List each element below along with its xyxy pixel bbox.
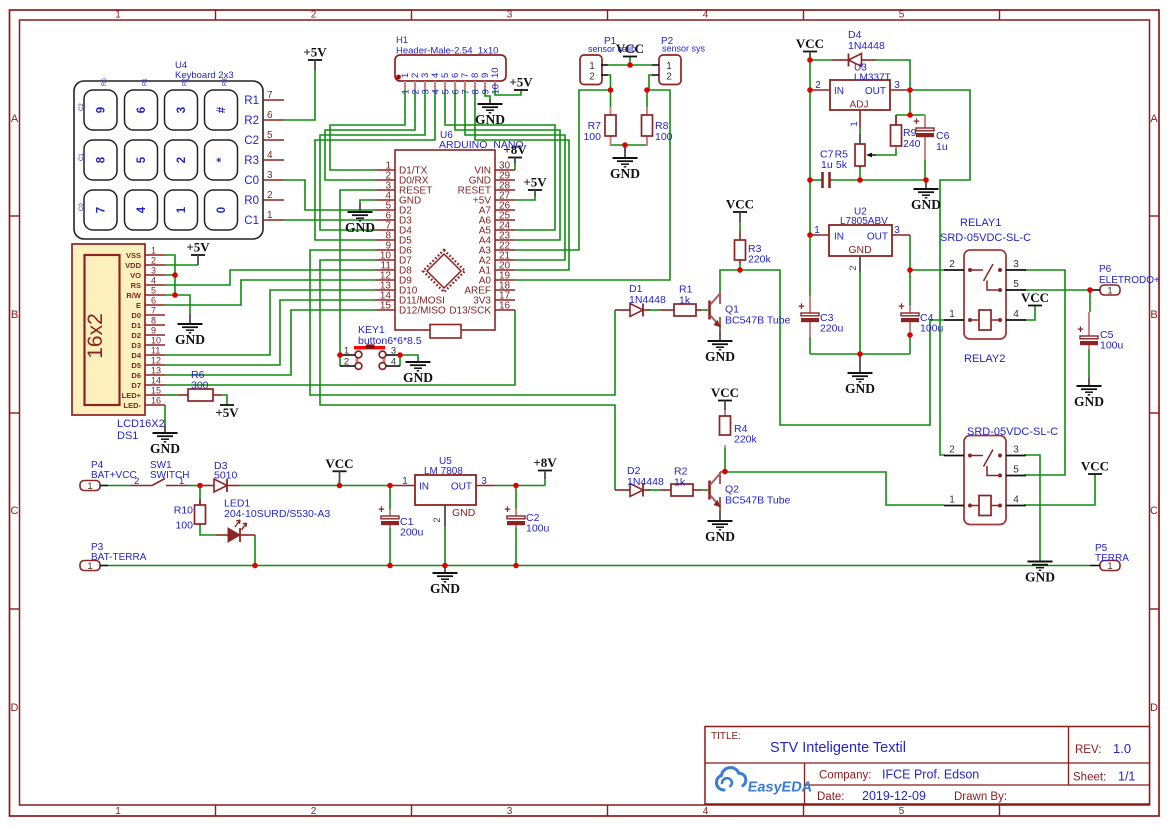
svg-text:GND: GND bbox=[705, 349, 735, 364]
wire LCD E to nano D9 bbox=[165, 280, 375, 305]
svg-text:REV:: REV: bbox=[1075, 744, 1101, 756]
diode D3 bbox=[200, 479, 239, 492]
svg-text:2: 2 bbox=[949, 259, 955, 270]
wire C3 bottom lead bbox=[809, 337, 811, 354]
svg-text:1: 1 bbox=[849, 121, 860, 126]
svg-text:RELAY2: RELAY2 bbox=[964, 353, 1005, 365]
svg-text:R10: R10 bbox=[174, 505, 193, 517]
svg-text:B: B bbox=[11, 309, 18, 321]
svg-text:OUT: OUT bbox=[865, 86, 886, 97]
svg-text:C: C bbox=[1150, 505, 1158, 517]
power VCC RELAY2 pin4 bbox=[1081, 459, 1109, 475]
svg-text:RELAY1: RELAY1 bbox=[960, 217, 1001, 229]
power +5V R6 (down) bbox=[215, 405, 239, 420]
svg-text:D12/MISO: D12/MISO bbox=[399, 306, 446, 317]
svg-text:DS1: DS1 bbox=[117, 430, 138, 442]
power GND LCD LED- bbox=[150, 424, 180, 456]
wire R8 top lead bbox=[646, 90, 648, 107]
svg-text:VCC: VCC bbox=[1021, 290, 1049, 305]
potentiometer R5 bbox=[855, 134, 876, 168]
svg-text:3: 3 bbox=[481, 476, 487, 487]
label Q2 bbox=[725, 484, 791, 507]
header H1 body bbox=[395, 55, 506, 95]
arduino U6 body bbox=[375, 150, 515, 338]
label R2 bbox=[674, 466, 688, 489]
label P3 bbox=[91, 542, 147, 563]
U5 pin stubs bbox=[390, 486, 495, 527]
svg-text:1: 1 bbox=[115, 806, 121, 817]
node R4 collector bbox=[722, 469, 728, 475]
wire LCD D5 to nano D11 bbox=[165, 300, 375, 365]
wire C5 bottom lead bbox=[1088, 349, 1090, 378]
svg-text:220u: 220u bbox=[820, 323, 844, 335]
svg-text:A: A bbox=[11, 113, 19, 125]
label U2 bbox=[840, 207, 888, 228]
node C1 top bbox=[387, 483, 393, 489]
resistor R2 bbox=[660, 484, 701, 496]
svg-text:E: E bbox=[136, 301, 141, 310]
wire D2 to R2 bbox=[648, 489, 660, 491]
svg-text:+: + bbox=[504, 504, 510, 516]
wire H1-3 to nano D4 bbox=[320, 90, 425, 230]
power +8V nano VIN bbox=[503, 142, 527, 163]
wire R4 bottom bbox=[724, 448, 726, 472]
node SW1 D3 R10 bbox=[197, 483, 203, 489]
svg-text:VCC: VCC bbox=[325, 456, 353, 471]
node C6 bottom bbox=[923, 177, 929, 183]
diode D1 bbox=[615, 304, 650, 317]
wire R6 to +5V flag bbox=[222, 395, 227, 405]
svg-text:BAT+VCC: BAT+VCC bbox=[91, 470, 137, 481]
svg-text:+5V: +5V bbox=[186, 240, 210, 255]
power GND U3 rail bbox=[911, 180, 941, 212]
label P2 bbox=[661, 36, 706, 54]
svg-text:100: 100 bbox=[583, 131, 601, 143]
power GND nano pin4 bbox=[345, 203, 375, 235]
svg-text:VCC: VCC bbox=[726, 197, 754, 212]
svg-text:6: 6 bbox=[136, 107, 148, 113]
svg-text:IN: IN bbox=[834, 86, 844, 97]
svg-text:C1: C1 bbox=[244, 215, 259, 227]
svg-text:R0: R0 bbox=[244, 195, 259, 207]
LCD DS1 16x2 bbox=[72, 244, 165, 415]
wire C7 left lead bbox=[810, 179, 822, 181]
wire node to R10 bbox=[199, 486, 201, 500]
wire C2 leads bbox=[515, 486, 517, 566]
connector P6 bbox=[1090, 285, 1120, 297]
svg-text:GND: GND bbox=[150, 441, 180, 456]
label RELAY2 part bbox=[967, 426, 1058, 438]
svg-text:SRD-05VDC-SL-C: SRD-05VDC-SL-C bbox=[967, 426, 1058, 438]
svg-text:GND: GND bbox=[1074, 394, 1104, 409]
svg-text:SRD-05VDC-SL-C: SRD-05VDC-SL-C bbox=[940, 232, 1031, 244]
svg-text:3: 3 bbox=[151, 266, 156, 276]
svg-text:P6: P6 bbox=[1099, 264, 1112, 275]
wire R7 top lead bbox=[610, 90, 612, 107]
svg-text:3: 3 bbox=[894, 80, 900, 91]
svg-text:15: 15 bbox=[151, 386, 161, 396]
svg-text:14: 14 bbox=[151, 376, 161, 386]
svg-text:2: 2 bbox=[949, 445, 955, 456]
svg-text:9: 9 bbox=[151, 326, 156, 336]
label R3 bbox=[748, 243, 772, 266]
svg-text:D0: D0 bbox=[131, 311, 141, 320]
wire H1-7 to nano A2 bbox=[465, 90, 565, 260]
svg-text:220k: 220k bbox=[734, 434, 758, 446]
label U6 bbox=[439, 130, 524, 151]
svg-text:C0: C0 bbox=[79, 203, 85, 211]
wire C1 leads bbox=[389, 486, 391, 566]
wire RELAY1 pin5 to P6 bbox=[1024, 289, 1090, 291]
wire U2 OUT down bbox=[909, 235, 911, 354]
label D1 bbox=[629, 283, 666, 306]
svg-text:BC547B Tube: BC547B Tube bbox=[725, 495, 791, 507]
power +5V LCD VDD bbox=[186, 240, 210, 266]
power +5V H1 pin10 bbox=[509, 75, 533, 91]
svg-text:C0: C0 bbox=[244, 175, 259, 187]
node LCD VO junction bbox=[172, 272, 178, 278]
svg-text:C2: C2 bbox=[244, 135, 259, 147]
wire sensor divider GND bbox=[624, 145, 626, 153]
U3 pin stubs bbox=[810, 90, 910, 128]
power GND Q2 bbox=[705, 511, 735, 544]
svg-text:VDD: VDD bbox=[125, 261, 141, 270]
svg-text:D7: D7 bbox=[131, 381, 141, 390]
svg-text:+5V: +5V bbox=[523, 175, 547, 190]
wire U3 OUT to RELAY2 pin2 bbox=[910, 90, 970, 455]
regulator U2 body bbox=[829, 225, 892, 256]
svg-text:1: 1 bbox=[949, 309, 955, 320]
wire LCD RS to nano D8 bbox=[165, 270, 375, 285]
svg-text:2: 2 bbox=[344, 357, 349, 368]
keypad U4 pins bbox=[244, 90, 284, 227]
svg-text:1: 1 bbox=[87, 481, 92, 492]
button KEY1 bbox=[340, 344, 400, 369]
wire keypad C0 to nano D2 bbox=[284, 180, 375, 210]
svg-text:1N4448: 1N4448 bbox=[627, 476, 664, 488]
svg-text:BC547B Tube: BC547B Tube bbox=[725, 315, 791, 327]
svg-text:1: 1 bbox=[179, 476, 184, 487]
svg-text:2: 2 bbox=[666, 72, 672, 83]
wire H1-1 to nano D1/TX bbox=[330, 90, 405, 170]
svg-text:+8V: +8V bbox=[533, 455, 557, 470]
wire +8V stem green bbox=[544, 479, 546, 486]
svg-text:B: B bbox=[1150, 309, 1157, 321]
svg-text:GND: GND bbox=[175, 332, 205, 347]
wire U3 ground rail bbox=[831, 179, 926, 181]
svg-text:1: 1 bbox=[666, 61, 672, 72]
svg-text:1: 1 bbox=[267, 210, 273, 221]
U2 pin stubs bbox=[810, 235, 910, 272]
wire P1-1 to P2-1 VCC bbox=[608, 64, 652, 66]
wire R9 C6 top bbox=[896, 114, 925, 116]
node KEY1 pin3 bbox=[397, 352, 403, 358]
svg-text:+: + bbox=[898, 301, 904, 313]
svg-text:TERRA: TERRA bbox=[1095, 553, 1129, 564]
svg-text:D1: D1 bbox=[131, 321, 141, 330]
svg-text:3: 3 bbox=[391, 346, 396, 357]
svg-text:LCD16X2: LCD16X2 bbox=[117, 418, 165, 430]
resistor R6 bbox=[178, 389, 222, 401]
svg-text:1: 1 bbox=[344, 346, 349, 357]
svg-text:+: + bbox=[798, 301, 804, 313]
label DS1 bbox=[117, 418, 165, 442]
svg-text:11: 11 bbox=[151, 346, 160, 356]
svg-text:16: 16 bbox=[499, 301, 511, 312]
wire RELAY2 pin3 to GND bbox=[1024, 455, 1040, 561]
wire LCD D6 to nano D12 bbox=[165, 310, 375, 375]
node LED1 gnd bbox=[252, 563, 258, 569]
svg-text:D: D bbox=[11, 702, 19, 714]
svg-text:7: 7 bbox=[267, 90, 273, 101]
capacitor C4 bbox=[898, 301, 919, 335]
node U3 IN bbox=[807, 87, 813, 93]
svg-text:STV Inteligente Textil: STV Inteligente Textil bbox=[770, 740, 906, 756]
svg-text:2: 2 bbox=[134, 476, 139, 487]
wire VCC vertical bbox=[809, 60, 811, 296]
wire Q1 collector to RELAY1 coil bbox=[720, 270, 944, 425]
svg-text:5: 5 bbox=[151, 286, 156, 296]
svg-text:+5V: +5V bbox=[509, 75, 533, 90]
wire P2-2 to node bbox=[647, 75, 652, 90]
node VCC P1 P2 bbox=[627, 62, 633, 68]
svg-text:ARDUINO_NANO: ARDUINO_NANO bbox=[439, 139, 524, 151]
node C7 left bbox=[807, 177, 813, 183]
svg-text:1: 1 bbox=[949, 495, 955, 506]
svg-text:2: 2 bbox=[848, 265, 859, 270]
svg-text:GND: GND bbox=[452, 507, 476, 519]
label U4 bbox=[175, 60, 234, 81]
wire R5 wiper to R9 bbox=[876, 149, 896, 155]
label D3 bbox=[214, 460, 238, 482]
wire VCC to D4 anode bbox=[810, 59, 832, 61]
svg-text:1u: 1u bbox=[821, 159, 833, 171]
svg-text:Drawn By:: Drawn By: bbox=[954, 791, 1007, 803]
svg-text:2: 2 bbox=[589, 72, 595, 83]
svg-text:R/W: R/W bbox=[126, 291, 142, 300]
svg-text:2: 2 bbox=[151, 256, 156, 266]
svg-text:5: 5 bbox=[899, 806, 905, 817]
wire LCD D4 to nano D10 bbox=[165, 290, 375, 355]
node R5 bottom bbox=[857, 177, 863, 183]
label H1 bbox=[396, 35, 498, 57]
wire U3 OUT to ADJ net bbox=[909, 90, 911, 115]
wire R4 top bbox=[724, 410, 726, 416]
wire P4 to SW1 bbox=[108, 485, 131, 487]
svg-text:R3: R3 bbox=[244, 155, 259, 167]
wire U5 OUT rail bbox=[495, 485, 545, 487]
power VCC sensors bbox=[616, 41, 644, 57]
svg-text:1: 1 bbox=[402, 476, 408, 487]
node sensor sys bbox=[644, 87, 650, 93]
wire R1 to Q1 base bbox=[700, 309, 708, 311]
wire D1 to R1 bbox=[648, 309, 660, 311]
svg-text:100: 100 bbox=[175, 520, 193, 532]
svg-text:GND: GND bbox=[430, 581, 460, 596]
svg-text:R1: R1 bbox=[143, 78, 149, 86]
transistor Q2 bbox=[710, 472, 721, 511]
svg-text:+: + bbox=[378, 504, 384, 516]
svg-text:GND: GND bbox=[705, 529, 735, 544]
svg-text:button6*6*8.5: button6*6*8.5 bbox=[358, 335, 422, 347]
label P6 bbox=[1099, 264, 1160, 286]
svg-text:1N4448: 1N4448 bbox=[848, 40, 885, 52]
power GND Q1 bbox=[705, 331, 735, 364]
svg-text:1: 1 bbox=[151, 246, 156, 256]
node R3 collector bbox=[737, 267, 743, 273]
power GND H1 pin9 bbox=[475, 99, 505, 127]
wire SW1 to node bbox=[187, 485, 200, 487]
wire H1-9 to GND bbox=[485, 90, 490, 99]
power +5V keypad bbox=[303, 45, 327, 71]
wire KEY1 pins 1-2 bbox=[339, 355, 341, 366]
capacitor C6 bbox=[913, 115, 934, 160]
svg-text:4: 4 bbox=[1013, 309, 1019, 320]
svg-text:12: 12 bbox=[151, 356, 161, 366]
svg-text:3: 3 bbox=[267, 170, 273, 181]
svg-text:BAT-TERRA: BAT-TERRA bbox=[91, 552, 147, 563]
svg-text:13: 13 bbox=[151, 366, 161, 376]
wire RELAY1 pin2 bbox=[910, 269, 945, 271]
svg-text:RS: RS bbox=[131, 281, 141, 290]
svg-text:TITLE:: TITLE: bbox=[711, 731, 741, 742]
node LCD RW junction bbox=[172, 292, 178, 298]
svg-text:3: 3 bbox=[176, 107, 188, 113]
svg-text:R2: R2 bbox=[244, 115, 259, 127]
svg-text:OUT: OUT bbox=[867, 232, 888, 243]
svg-text:1k: 1k bbox=[674, 477, 686, 489]
svg-text:sensor calib: sensor calib bbox=[588, 44, 636, 54]
svg-text:1: 1 bbox=[115, 10, 121, 21]
regulator U3 body bbox=[830, 80, 890, 110]
node C4 bottom bbox=[907, 332, 913, 338]
svg-text:100: 100 bbox=[655, 131, 673, 143]
svg-text:GND: GND bbox=[345, 220, 375, 235]
svg-text:220k: 220k bbox=[748, 254, 772, 266]
label P1 bbox=[588, 36, 636, 54]
wire U2 ground rail bbox=[810, 353, 910, 355]
svg-text:10: 10 bbox=[490, 84, 501, 95]
switch SW1 bbox=[131, 479, 187, 486]
wire VCC flag P1P2 bbox=[629, 57, 631, 65]
wire LCD RW to GND bbox=[175, 295, 190, 314]
svg-text:Header-Male-2.54_1x10: Header-Male-2.54_1x10 bbox=[396, 46, 498, 57]
svg-text:LM337T: LM337T bbox=[854, 73, 891, 84]
svg-text:1: 1 bbox=[814, 225, 820, 236]
power GND LCD RW bbox=[175, 314, 205, 347]
svg-text:1u: 1u bbox=[936, 141, 948, 153]
wire U2 pin2 to rail bbox=[859, 272, 861, 354]
connector P1 bbox=[580, 55, 608, 85]
label C2 bbox=[526, 512, 550, 535]
resistor R9 bbox=[891, 115, 902, 149]
capacitor C2 bbox=[504, 504, 525, 528]
power VCC input rail bbox=[325, 456, 353, 486]
wire LCD LED- to GND bbox=[164, 405, 166, 424]
node ADJ net bbox=[907, 112, 913, 118]
svg-text:2: 2 bbox=[311, 806, 317, 817]
label R10 bbox=[174, 505, 193, 532]
transistor Q1 bbox=[710, 292, 721, 331]
wire ground rail bottom bbox=[108, 565, 1090, 567]
power GND U5 bbox=[430, 566, 460, 596]
wire LCD VSS-VO-RW bus bbox=[165, 255, 175, 295]
resistor R3 bbox=[735, 231, 746, 263]
svg-text:GND: GND bbox=[610, 166, 640, 181]
label SW1 pins bbox=[134, 476, 184, 487]
wire C6 bottom lead bbox=[924, 160, 926, 180]
svg-text:ELETRODO+: ELETRODO+ bbox=[1099, 275, 1160, 286]
label SW1 bbox=[150, 460, 189, 481]
label RELAY2 bbox=[964, 353, 1005, 365]
wire nano D7 to D2 bbox=[320, 260, 615, 490]
label P5 bbox=[1095, 543, 1129, 564]
wire D3 to U5 VCC rail bbox=[239, 485, 390, 487]
svg-text:VCC: VCC bbox=[796, 36, 824, 51]
wire D4 cathode to OUT node bbox=[876, 60, 910, 90]
wire P1-2 to node bbox=[608, 75, 611, 90]
svg-text:VCC: VCC bbox=[711, 385, 739, 400]
resistor R1 bbox=[660, 304, 701, 316]
label D2 bbox=[627, 465, 664, 488]
capacitor C1 bbox=[378, 504, 399, 528]
svg-text:2: 2 bbox=[815, 80, 821, 91]
label D4 bbox=[848, 29, 885, 52]
label U5 bbox=[424, 456, 463, 477]
wire R5 bottom bbox=[859, 168, 861, 180]
svg-text:300: 300 bbox=[191, 380, 209, 392]
svg-text:15: 15 bbox=[380, 301, 392, 312]
svg-text:LED-: LED- bbox=[124, 401, 142, 410]
svg-text:4: 4 bbox=[703, 10, 709, 21]
svg-text:LED+: LED+ bbox=[122, 391, 142, 400]
resistor R7 bbox=[605, 107, 616, 145]
LED LED1 bbox=[216, 520, 255, 542]
svg-text:#: # bbox=[216, 106, 228, 113]
label P4 bbox=[91, 460, 137, 481]
power VCC RELAY1 pin4 bbox=[1021, 290, 1049, 306]
svg-text:+5V: +5V bbox=[215, 405, 239, 420]
wire RELAY1 pin3 to RELAY2 pin5 bbox=[1024, 270, 1065, 475]
node U5 gnd bbox=[442, 563, 448, 569]
svg-text:C1: C1 bbox=[79, 153, 85, 161]
svg-text:3: 3 bbox=[1013, 259, 1019, 270]
title block bbox=[705, 727, 1150, 805]
wire H1-8 to nano A1 bbox=[475, 90, 569, 270]
svg-text:OUT: OUT bbox=[451, 482, 472, 493]
svg-text:Company:: Company: bbox=[819, 770, 871, 782]
svg-text:3: 3 bbox=[507, 10, 513, 21]
wire R10 to LED1 bbox=[200, 524, 216, 535]
svg-text:5010: 5010 bbox=[214, 470, 238, 482]
connector P5 bbox=[1090, 561, 1120, 573]
svg-text:D6: D6 bbox=[131, 371, 141, 380]
svg-text:C2: C2 bbox=[79, 103, 85, 111]
svg-text:GND: GND bbox=[475, 112, 505, 127]
relay RELAY1 bbox=[944, 250, 1026, 339]
node RELAY1 pin2 tap bbox=[907, 267, 913, 273]
wire Q2 collector to RELAY2 coil bbox=[720, 472, 944, 505]
svg-text:5: 5 bbox=[899, 10, 905, 21]
wire RELAY1 pin4 to VCC bbox=[1024, 306, 1035, 320]
svg-text:IN: IN bbox=[419, 482, 429, 493]
label U2 pins bbox=[814, 225, 900, 271]
svg-text:4: 4 bbox=[703, 806, 709, 817]
svg-text:4: 4 bbox=[136, 206, 148, 213]
svg-text:sensor sys: sensor sys bbox=[662, 44, 706, 54]
svg-text:4: 4 bbox=[267, 150, 273, 161]
svg-text:2019-12-09: 2019-12-09 bbox=[862, 789, 926, 803]
